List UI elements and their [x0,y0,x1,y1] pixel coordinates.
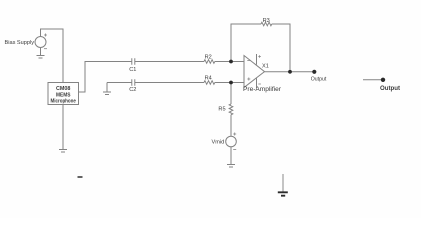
ground (isolated, bottom center) [278,174,288,196]
wire feedback left riser [231,24,261,62]
partial ground mark (bottom left) [78,176,83,178]
junction inverting input node [229,60,233,64]
resistor R4 [204,81,215,85]
ground (Vmid) [227,165,235,168]
pin + (Vmid) [233,133,236,136]
terminal dot Output 2 [381,78,385,82]
svg-text:C2: C2 [129,87,136,93]
op-amp supply - mark [258,83,261,85]
wire microphone bottom pin to ground [62,105,64,150]
terminal dot Output 1 [312,70,316,74]
svg-text:MEMS: MEMS [56,92,71,98]
svg-text:C1: C1 [129,67,136,73]
wire Vmid to ground [230,147,232,165]
wire bias supply to ground [40,48,42,56]
svg-text:Pre-Amplifier: Pre-Amplifier [243,86,281,93]
wire output terminal 2 [363,79,383,81]
op-amp positive supply pin [256,54,258,65]
wire C2 to R4 [135,82,204,84]
svg-text:CM08: CM08 [56,86,71,92]
wire R5 branch [230,83,232,105]
pin - (bias supply) [44,48,47,50]
ground (microphone) [59,150,67,153]
wire C1 to R2 [135,61,204,63]
svg-text:Output: Output [380,85,401,92]
svg-text:R2: R2 [205,55,212,61]
svg-text:Output: Output [311,77,327,83]
ground (bias supply) [37,56,45,59]
op-amp supply + mark [258,55,261,58]
capacitor C1 [132,58,135,65]
svg-text:Bias Supply: Bias Supply [5,40,35,46]
op-amp inverting input mark [247,60,250,62]
op-amp negative supply pin [256,78,258,88]
label CM08 MEMS Microphone [50,86,76,105]
svg-text:R3: R3 [263,18,270,24]
wire ground to C2 [107,82,132,84]
resistor R5 [229,104,233,115]
resistor R3 [261,22,272,26]
voltage source Bias Supply [35,37,46,48]
resistor R2 [204,60,215,64]
wire R4 to non-inverting input [215,82,244,84]
op-amp X1 triangle [244,56,265,88]
wire R5 to Vmid [230,115,232,137]
wire op-amp output [265,71,316,73]
wire microphone output to C1 [79,62,132,93]
voltage source Vmid [226,136,237,147]
pin - (Vmid) [233,149,236,151]
svg-text:Vmid: Vmid [212,139,225,145]
junction output node [288,70,292,74]
svg-text:Microphone: Microphone [50,99,76,105]
microphone CM08 box [48,83,79,105]
svg-text:X1: X1 [262,64,269,70]
ground (C2 input) [103,83,111,95]
pin + (bias supply) [44,34,47,37]
svg-text:R5: R5 [218,107,225,113]
junction non-inverting input node [229,81,233,85]
svg-text:R4: R4 [205,76,212,82]
wire R2 to inverting input [215,61,244,63]
capacitor C2 [132,79,135,86]
wire R3 to output node [272,24,290,72]
wire bias supply top to microphone [41,29,64,83]
op-amp non-inverting input mark [247,78,250,81]
